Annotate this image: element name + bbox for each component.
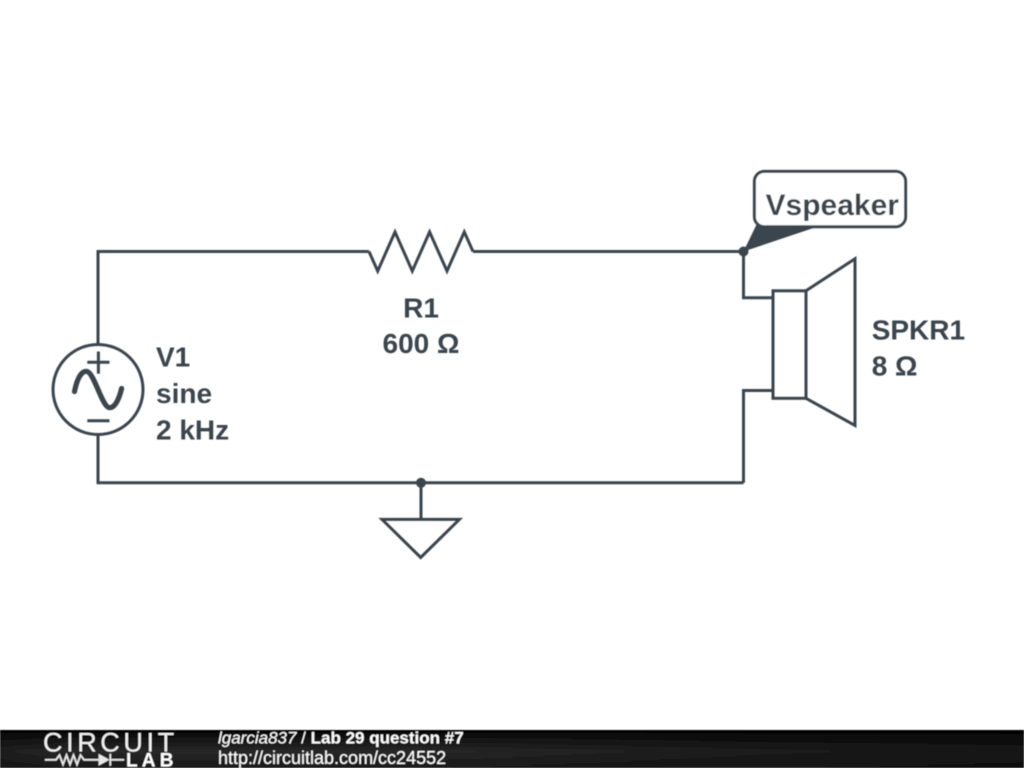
svg-text:LAB: LAB — [126, 751, 178, 768]
svg-text:2 kHz: 2 kHz — [156, 414, 229, 445]
svg-text:sine: sine — [156, 378, 212, 409]
svg-text:600 Ω: 600 Ω — [383, 328, 460, 359]
svg-text:8 Ω: 8 Ω — [872, 351, 918, 382]
svg-text:SPKR1: SPKR1 — [872, 315, 965, 346]
svg-text:http://circuitlab.com/cc24552: http://circuitlab.com/cc24552 — [218, 748, 446, 768]
svg-text:V1: V1 — [156, 342, 190, 373]
svg-text:lgarcia837 / Lab 29 question #: lgarcia837 / Lab 29 question #7 — [218, 728, 464, 747]
svg-text:R1: R1 — [403, 292, 439, 323]
svg-text:Vspeaker: Vspeaker — [766, 189, 900, 222]
